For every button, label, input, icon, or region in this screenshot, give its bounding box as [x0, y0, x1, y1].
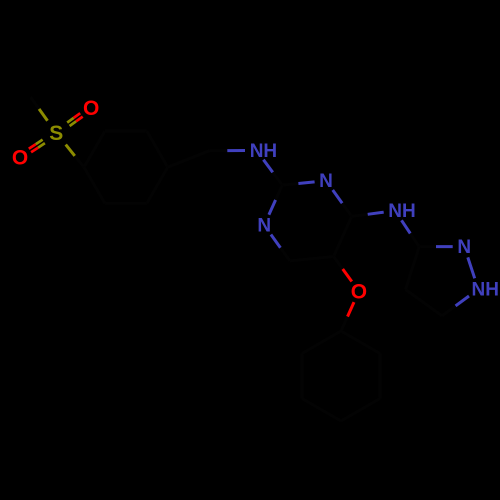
- bond S=O2 double: [29, 140, 45, 153]
- bond Cc-Cd: [147, 131, 168, 167]
- bond C4-NHb: [352, 212, 384, 216]
- bond S=O1 double: [67, 113, 83, 126]
- svg-text:O: O: [12, 146, 28, 169]
- bond C5-O3: [334, 257, 352, 282]
- bond Ci-Cj: [341, 399, 380, 422]
- bond N1-C4: [333, 190, 352, 216]
- bond CH2a-NHa: [210, 149, 246, 152]
- bond C6-N3: [271, 235, 290, 261]
- bond Ce-Cf: [105, 202, 147, 205]
- svg-text:N: N: [319, 171, 333, 192]
- bond N3-C2: [269, 185, 282, 215]
- bond Np1-Cp5: [442, 296, 469, 316]
- svg-text:NH: NH: [472, 280, 499, 301]
- bond NHb-Cp3: [402, 220, 420, 246]
- svg-text:O: O: [83, 97, 99, 120]
- svg-text:N: N: [457, 237, 471, 258]
- bond Cp3-Npz: [419, 245, 453, 248]
- bond Cd-Ce: [147, 167, 168, 203]
- bond Cj-Ck: [302, 399, 341, 422]
- bond Cp4-Cp3: [406, 247, 420, 290]
- bond Cl-Cg: [302, 331, 341, 354]
- svg-text:N: N: [257, 216, 271, 237]
- bond C5-C6: [290, 257, 334, 261]
- bond Ck-Cl: [301, 354, 304, 399]
- bond NHa-C2: [263, 160, 282, 185]
- svg-text:NH: NH: [388, 201, 415, 222]
- svg-text:S: S: [49, 122, 63, 145]
- bond S-CH3: [31, 97, 48, 121]
- bond Ca-Cb: [84, 131, 105, 167]
- bond Ch-Ci: [379, 354, 382, 399]
- bond Cb-Cc: [105, 130, 147, 133]
- bond Cp5-Cp4: [406, 290, 443, 316]
- bond O3-Cg: [341, 302, 354, 331]
- bond Cd-CH2a: [168, 151, 210, 168]
- svg-text:NH: NH: [250, 141, 277, 162]
- svg-text:O: O: [351, 280, 367, 303]
- bond S-Ca: [66, 145, 84, 168]
- bond C4-C5: [334, 216, 352, 256]
- bond Npz-Np1: [468, 257, 475, 278]
- bond Cg-Ch: [341, 331, 380, 354]
- bond Cf-Ca: [84, 167, 105, 203]
- bond C2-N1: [282, 182, 314, 185]
